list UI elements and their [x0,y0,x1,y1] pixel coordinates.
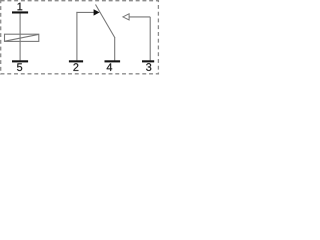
wire terminal 2 horizontal to fixed contact [76,11,94,13]
terminal 5 bar [12,60,28,62]
wire terminal 3 vertical [149,17,151,61]
terminal 4 bar [105,60,121,62]
wire terminal 4 vertical [114,38,116,61]
fixed contact arrow (filled, pointing right) [94,9,100,15]
terminal 3 bar [142,60,154,62]
pin label 3 [146,63,151,71]
pin label 1 [18,3,23,11]
pin label 4 [107,63,113,71]
rest contact arrow (open, pointing left) [123,14,129,20]
wire rest contact horizontal [129,16,150,18]
relay outline (dashed enclosure) [1,1,159,74]
terminal 2 bar [69,60,83,62]
relay coil (rectangle with diagonal stripe) [5,34,39,41]
terminal 1 bar [12,11,28,13]
pin label 2 [73,63,78,71]
pin label 5 [17,63,22,71]
wire terminal 2 vertical [76,12,78,61]
movable contact blade (diagonal) [96,5,116,39]
wire terminal 1 to coil to terminal 5 [19,14,21,61]
